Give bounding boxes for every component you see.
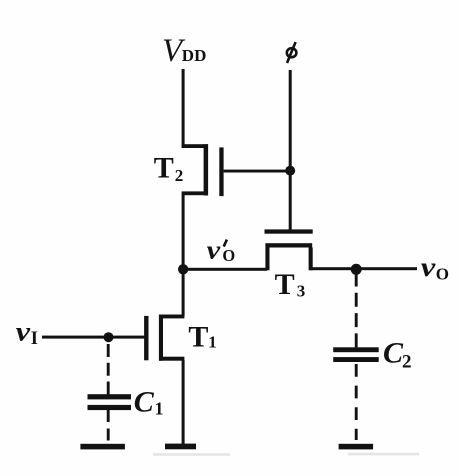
node junction dot vO (351, 264, 362, 275)
node VDD label (162, 33, 206, 69)
wire vI lead (42, 336, 145, 339)
svg-text:DD: DD (182, 46, 207, 65)
wire dashed C2 lower (355, 364, 358, 440)
svg-text:v: v (207, 236, 221, 265)
label v'O (207, 236, 236, 266)
label vI (16, 316, 38, 348)
svg-text:O: O (222, 246, 235, 265)
ground C2 (339, 444, 374, 450)
label T1 (188, 320, 216, 353)
node junction dot vI/C1 (104, 332, 114, 342)
svg-text:v: v (421, 252, 437, 282)
svg-text:2: 2 (175, 166, 184, 185)
node phi label (287, 42, 297, 63)
svg-text:C: C (134, 386, 155, 419)
wire dashed C2 upper (355, 273, 358, 348)
label C2 (383, 337, 412, 373)
transistor T3 (265, 229, 313, 270)
svg-text:T: T (275, 268, 295, 301)
ground C1 (80, 444, 125, 450)
svg-text:I: I (31, 329, 38, 349)
node junction dot v'O (178, 264, 188, 274)
label T3 (275, 268, 306, 301)
label T2 (154, 152, 184, 186)
wire T2 source to node (182, 194, 185, 270)
svg-text:2: 2 (402, 352, 412, 373)
svg-text:C: C (383, 337, 404, 370)
capacitor C1 (88, 394, 132, 410)
wire T1 source down (182, 360, 185, 444)
wire node to T1 drain (182, 269, 185, 316)
svg-text:3: 3 (297, 282, 306, 301)
wire T3 to vO (311, 267, 417, 270)
svg-text:1: 1 (208, 332, 217, 351)
wire VDD vertical (182, 69, 185, 147)
wire phi vertical (289, 70, 292, 234)
ground T1 (165, 444, 196, 450)
wire dashed C1 upper (107, 344, 110, 395)
wire T2 gate lead (224, 170, 291, 173)
faint scan smudge left (153, 453, 230, 456)
label vO (421, 252, 449, 283)
transistor T1 (144, 315, 184, 361)
label C1 (134, 386, 164, 419)
capacitor C2 (333, 347, 379, 362)
transistor T2 (182, 144, 224, 196)
wire dashed C1 lower (107, 410, 110, 444)
svg-text:O: O (436, 264, 449, 283)
svg-text:1: 1 (155, 399, 164, 419)
node junction dot phi/T2 gate (285, 166, 295, 176)
svg-text:T: T (154, 152, 174, 185)
wire node to T3 (183, 268, 267, 271)
svg-text:v: v (16, 316, 32, 346)
faint scan smudge right (348, 453, 419, 456)
svg-text:T: T (188, 320, 208, 353)
